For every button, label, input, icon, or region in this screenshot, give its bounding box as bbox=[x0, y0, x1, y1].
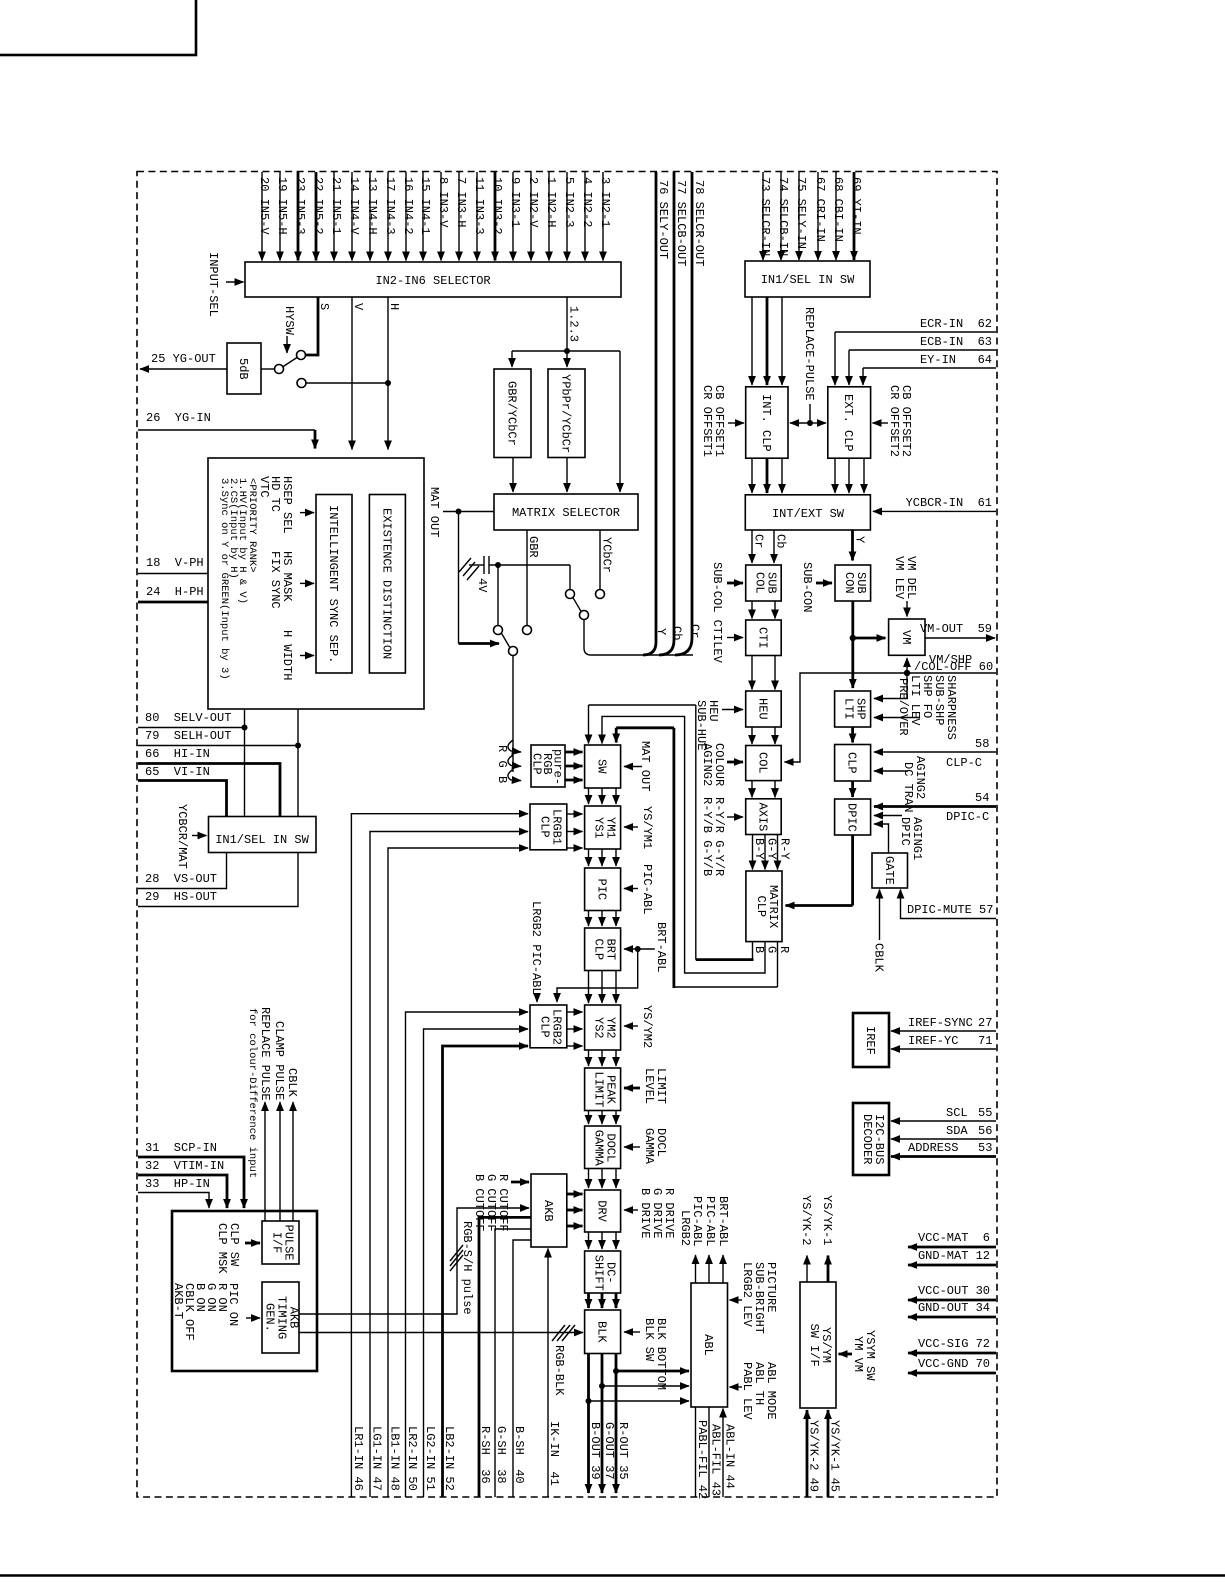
svg-text:ABL-FIL 43: ABL-FIL 43 bbox=[709, 1424, 723, 1496]
svg-text:10 IN3-2: 10 IN3-2 bbox=[490, 177, 504, 235]
svg-text:AGING2: AGING2 bbox=[700, 743, 714, 786]
node on H wire bbox=[385, 380, 391, 386]
svg-text:9 IN3-1: 9 IN3-1 bbox=[508, 177, 522, 227]
wire 1.2.3 from selector bbox=[512, 297, 620, 492]
pin 21 IN5-1 bbox=[329, 172, 343, 261]
block INT. CLP bbox=[746, 387, 788, 458]
svg-text:G-SH 38: G-SH 38 bbox=[494, 1426, 508, 1484]
svg-text:B: B bbox=[495, 776, 509, 783]
label priority rank note bbox=[218, 478, 258, 680]
block EXISTENCE DISTINCTION bbox=[369, 495, 405, 674]
svg-text:VCC-OUT 30: VCC-OUT 30 bbox=[918, 1284, 990, 1298]
wire GBR out of matrix selector bbox=[526, 530, 540, 625]
block BLK bbox=[585, 1310, 621, 1354]
label CB/CR OFFSET2 bbox=[873, 385, 914, 457]
pin VM-OUT 59 bbox=[920, 622, 995, 638]
svg-text:VM: VM bbox=[899, 630, 913, 644]
block CTI bbox=[746, 620, 782, 656]
svg-text:YM VM: YM VM bbox=[851, 1336, 865, 1372]
pin VCC-MAT 6 bbox=[908, 1231, 996, 1247]
label AGING2 DC TRAN bbox=[874, 756, 927, 812]
wires IN1/SEL to INT.CLP bbox=[752, 297, 782, 385]
wire 4V to YCbCr contact bbox=[569, 565, 571, 589]
svg-text:GAMMA: GAMMA bbox=[642, 1128, 656, 1165]
pin EY-IN 64 bbox=[863, 353, 996, 385]
label YS/YM1 stub bbox=[624, 806, 654, 849]
svg-text:LR1-IN 46: LR1-IN 46 bbox=[351, 1426, 365, 1491]
label R/G/B CUTOFF bbox=[472, 1174, 529, 1232]
svg-text:R-Y/B G-Y/B: R-Y/B G-Y/B bbox=[700, 797, 714, 876]
svg-text:77 SELCB-OUT: 77 SELCB-OUT bbox=[674, 180, 688, 266]
svg-text:R-Y: R-Y bbox=[778, 838, 792, 860]
svg-text:RGB-S/H pulse: RGB-S/H pulse bbox=[460, 1221, 474, 1315]
svg-text:GATE: GATE bbox=[882, 856, 896, 885]
svg-text:20 IN5-V: 20 IN5-V bbox=[257, 177, 271, 235]
label R/G/B DRIVE bbox=[624, 1188, 676, 1238]
wire Cr out of INT/EXT SW bbox=[752, 530, 766, 563]
svg-text:25 YG-OUT: 25 YG-OUT bbox=[151, 352, 216, 366]
pin R-SH 36 bbox=[478, 1217, 531, 1497]
label CB/CR OFFSET1 bbox=[700, 385, 744, 457]
svg-text:VTC: VTC bbox=[257, 476, 271, 498]
svg-text:REPLACE-PULSE: REPLACE-PULSE bbox=[802, 307, 816, 401]
pin VCC-SIG 72 bbox=[908, 1337, 996, 1353]
label VM DEL VM LEV bbox=[892, 556, 918, 617]
svg-text:CLP: CLP bbox=[537, 1016, 551, 1038]
block AKB TIMING GEN. bbox=[262, 1282, 301, 1353]
svg-text:ABL: ABL bbox=[701, 1334, 715, 1356]
svg-text:PRE/OVER: PRE/OVER bbox=[896, 678, 910, 736]
net BRT-ABL bbox=[557, 922, 668, 1002]
svg-text:AKB-T: AKB-T bbox=[171, 1283, 185, 1319]
svg-text:2 IN2-V: 2 IN2-V bbox=[526, 177, 540, 228]
svg-text:YCBCR/MAT: YCBCR/MAT bbox=[175, 804, 189, 869]
pin 17 IN4-3 bbox=[383, 172, 397, 261]
block CLP bbox=[835, 745, 871, 782]
svg-text:HYSW: HYSW bbox=[282, 306, 296, 336]
label COLOUR AGING2 bbox=[700, 743, 743, 786]
pin YCBCR-IN 61 bbox=[873, 496, 996, 511]
label PIC-ABL stub bbox=[624, 864, 654, 914]
wires SUB COL to CTI bbox=[752, 601, 775, 619]
pin 15 IN4-1 bbox=[418, 172, 432, 261]
svg-text:PABL LEV: PABL LEV bbox=[740, 1362, 754, 1420]
svg-text:Y: Y bbox=[654, 628, 668, 635]
svg-text:73 SELCR-IN: 73 SELCR-IN bbox=[758, 177, 772, 256]
svg-text:EXT. CLP: EXT. CLP bbox=[841, 394, 855, 452]
svg-text:23 IN5-3: 23 IN5-3 bbox=[293, 177, 307, 235]
wire SUB CON down with node bbox=[850, 601, 886, 688]
dashed diagram border bbox=[137, 172, 997, 1498]
svg-text:54: 54 bbox=[975, 791, 989, 805]
wire MAT OUT down to switch bbox=[459, 512, 500, 644]
wire lower contact to H bbox=[307, 382, 389, 384]
svg-text:B-OUT 39: B-OUT 39 bbox=[588, 1422, 602, 1480]
svg-text:CLP: CLP bbox=[537, 816, 551, 838]
pin 18 V-PH bbox=[138, 556, 208, 574]
svg-text:INT/EXT SW: INT/EXT SW bbox=[772, 507, 845, 521]
svg-text:DC TRAN: DC TRAN bbox=[901, 762, 915, 812]
svg-text:33 HP-IN: 33 HP-IN bbox=[145, 1177, 210, 1191]
block SW bbox=[585, 745, 621, 788]
svg-text:INT. CLP: INT. CLP bbox=[759, 394, 773, 452]
svg-text:MAT OUT: MAT OUT bbox=[638, 741, 652, 791]
svg-text:LRGB2: LRGB2 bbox=[678, 1210, 692, 1246]
svg-text:LB2-IN 52: LB2-IN 52 bbox=[442, 1426, 456, 1491]
svg-text:EXISTENCE DISTINCTION: EXISTENCE DISTINCTION bbox=[380, 508, 394, 659]
svg-text:V: V bbox=[351, 303, 365, 311]
pin ADDRESS 53 bbox=[891, 1141, 996, 1157]
svg-text:DPIC-MUTE 57: DPIC-MUTE 57 bbox=[907, 903, 993, 917]
svg-text:GND-OUT 34: GND-OUT 34 bbox=[918, 1301, 990, 1315]
svg-text:SDA: SDA bbox=[946, 1124, 968, 1138]
svg-text:HEU: HEU bbox=[755, 698, 769, 720]
block GBR/YCbCr bbox=[494, 369, 531, 458]
svg-text:YS/YM1: YS/YM1 bbox=[640, 806, 654, 849]
svg-text:3 IN2-1: 3 IN2-1 bbox=[598, 177, 612, 227]
wire bus Y (pin 76) bbox=[643, 172, 668, 655]
wires YM2 to PEAK bbox=[589, 1050, 617, 1066]
svg-text:16 IN4-2: 16 IN4-2 bbox=[401, 177, 415, 235]
svg-text:GBR: GBR bbox=[526, 536, 540, 558]
svg-text:SHIFT: SHIFT bbox=[592, 1255, 606, 1291]
svg-text:DECODER: DECODER bbox=[860, 1114, 874, 1164]
svg-text:INTELLINGENT SYNC SEP.: INTELLINGENT SYNC SEP. bbox=[326, 505, 340, 663]
pin B-SH 40 bbox=[512, 1240, 531, 1497]
pin R-OUT 35 bbox=[613, 1354, 689, 1494]
pin 33 HP-IN bbox=[138, 1177, 210, 1208]
wire RGB-BLK to BLK bbox=[299, 1325, 583, 1396]
pin SCL 55 bbox=[891, 1106, 996, 1121]
label H WIDTH bbox=[280, 630, 314, 680]
wire feeder LR2-IN bbox=[406, 1012, 529, 1497]
block MATRIX CLP bbox=[746, 871, 782, 942]
svg-text:GAMMA: GAMMA bbox=[592, 1130, 606, 1167]
wires ABL up outputs bbox=[678, 1196, 730, 1283]
block 5dB bbox=[227, 343, 261, 394]
svg-text:EY-IN 64: EY-IN 64 bbox=[920, 353, 992, 367]
wires LRGB1 to YM1 bbox=[567, 814, 583, 848]
svg-text:PIC: PIC bbox=[595, 879, 609, 901]
svg-text:11 IN3-3: 11 IN3-3 bbox=[472, 177, 486, 235]
pin 31 SCP-IN bbox=[138, 1141, 244, 1208]
svg-text:DPIC: DPIC bbox=[898, 817, 912, 846]
wire selected RGB down to pure-RGB CLP bbox=[495, 656, 521, 784]
label SUB-COL CTILEV bbox=[710, 562, 743, 664]
label HSEP SEL / HD TC / VTC bbox=[257, 476, 314, 534]
pin G-SH 38 bbox=[494, 1229, 531, 1497]
pin 22 IN5-2 bbox=[311, 172, 325, 261]
block pulse container bbox=[172, 1211, 317, 1371]
label MAT OUT bbox=[427, 487, 494, 537]
svg-text:LR2-IN 50: LR2-IN 50 bbox=[405, 1426, 419, 1491]
label ABL MODE ABL TH PABL LEV bbox=[730, 1362, 779, 1420]
svg-text:VCC-SIG 72: VCC-SIG 72 bbox=[918, 1337, 990, 1351]
block INT/EXT SW bbox=[745, 495, 870, 530]
svg-text:29 HS-OUT: 29 HS-OUT bbox=[145, 890, 217, 904]
pin 3 IN2-1 bbox=[598, 172, 612, 261]
svg-text:LEVEL: LEVEL bbox=[642, 1068, 656, 1104]
wires PIC to BRT bbox=[589, 911, 617, 927]
wire feeder LG2-IN bbox=[424, 1029, 529, 1497]
wire B output hook to SW bbox=[589, 705, 767, 960]
block YM2 YS2 bbox=[585, 1005, 621, 1050]
svg-text:YPbPr/YCbCr: YPbPr/YCbCr bbox=[559, 374, 573, 453]
block IN2-IN6 SELECTOR bbox=[245, 262, 621, 297]
svg-text:SUB-CON: SUB-CON bbox=[800, 562, 814, 612]
svg-text:Cb: Cb bbox=[774, 534, 788, 548]
label HEU SUB-HUE bbox=[694, 700, 743, 750]
svg-text:RGB-BLK: RGB-BLK bbox=[552, 1345, 566, 1396]
pin VCC-GND 70 bbox=[908, 1357, 996, 1373]
wires GAMMA to DRV bbox=[589, 1169, 617, 1189]
svg-text:LG2-IN 51: LG2-IN 51 bbox=[423, 1426, 437, 1491]
svg-text:14 IN4-V: 14 IN4-V bbox=[347, 177, 361, 235]
svg-text:YS2: YS2 bbox=[592, 1017, 606, 1039]
block PIC bbox=[585, 868, 621, 911]
wire V from selector bbox=[351, 297, 365, 450]
svg-text:5 IN2-3: 5 IN2-3 bbox=[562, 177, 576, 227]
pin 29 HS-OUT bbox=[138, 853, 298, 907]
svg-text:G-OUT 37: G-OUT 37 bbox=[602, 1422, 616, 1480]
svg-text:VCC-MAT 6: VCC-MAT 6 bbox=[918, 1231, 990, 1245]
svg-text:PABL-FIL 42: PABL-FIL 42 bbox=[695, 1420, 709, 1499]
pin 80 SELV-OUT bbox=[138, 711, 248, 731]
wire Y out of INT/EXT SW bbox=[853, 530, 867, 561]
svg-text:LG1-IN 47: LG1-IN 47 bbox=[370, 1426, 384, 1491]
pin 16 IN4-2 bbox=[401, 172, 415, 261]
svg-text:LTI: LTI bbox=[842, 698, 856, 720]
svg-text:SUB-COL CTILEV: SUB-COL CTILEV bbox=[710, 562, 724, 664]
block AXIS bbox=[746, 799, 782, 835]
pin ECR-IN 62 bbox=[835, 317, 996, 385]
svg-text:67 CRI-IN: 67 CRI-IN bbox=[813, 177, 827, 242]
pin IREF-SYNC 27 bbox=[891, 1016, 996, 1031]
pin 10 IN3-2 bbox=[490, 172, 504, 261]
svg-text:COL: COL bbox=[753, 572, 767, 594]
svg-text:YS1: YS1 bbox=[592, 817, 606, 839]
wire CLP to DPIC bbox=[851, 781, 854, 797]
wires YS/YK outputs up bbox=[799, 1195, 834, 1282]
svg-text:66 HI-IN: 66 HI-IN bbox=[145, 747, 210, 761]
svg-text:4V: 4V bbox=[475, 578, 489, 593]
pin 7 IN3-H bbox=[454, 172, 468, 261]
block DOCL GAMMA bbox=[585, 1126, 621, 1169]
pin 69 YI-IN bbox=[849, 172, 863, 260]
wires YM1 to PIC bbox=[589, 849, 617, 866]
svg-text:BLK SW: BLK SW bbox=[642, 1318, 656, 1362]
wire container to sel-in-sw bbox=[244, 709, 246, 817]
svg-text:G-Y: G-Y bbox=[765, 838, 779, 860]
wire S from selector bbox=[306, 297, 331, 355]
wires PEAK to GAMMA bbox=[589, 1111, 617, 1125]
wire GBR box to matrix selector bbox=[512, 458, 514, 493]
wires BRT to YM2 bbox=[589, 971, 617, 1004]
block GATE bbox=[872, 853, 908, 888]
svg-text:71: 71 bbox=[978, 1034, 992, 1048]
label CLP SW CLP MSK bbox=[215, 1223, 260, 1274]
wire bus Cr (pin 78) bbox=[675, 172, 702, 655]
block IN1/SEL IN SW (sync) bbox=[209, 817, 317, 853]
wire feeder LB2-IN bbox=[443, 1046, 529, 1497]
wire COL-OFF to SHP/LTI right bbox=[874, 673, 907, 699]
block SHP LTI bbox=[835, 691, 871, 727]
svg-text:5dB: 5dB bbox=[236, 358, 250, 380]
pin 14 IN4-V bbox=[347, 172, 361, 261]
wires HEU to COL bbox=[752, 727, 775, 744]
svg-text:58: 58 bbox=[975, 737, 989, 751]
block DPIC bbox=[835, 799, 871, 835]
block PULSE I/F bbox=[262, 1221, 299, 1264]
svg-text:Cb: Cb bbox=[670, 626, 684, 640]
svg-text:76 SELY-OUT: 76 SELY-OUT bbox=[656, 180, 670, 259]
label REPLACE-PULSE bbox=[790, 307, 826, 426]
svg-text:1 IN2-H: 1 IN2-H bbox=[544, 177, 558, 227]
svg-text:21 IN5-1: 21 IN5-1 bbox=[329, 177, 343, 235]
svg-text:CLP MSK: CLP MSK bbox=[215, 1223, 229, 1274]
pin 13 IN4-H bbox=[365, 172, 379, 261]
block HEU bbox=[746, 691, 782, 727]
svg-text:22 IN5-2: 22 IN5-2 bbox=[311, 177, 325, 235]
wire Cb out of INT/EXT SW bbox=[774, 530, 788, 563]
block COL bbox=[746, 746, 782, 781]
svg-text:LB1-IN 48: LB1-IN 48 bbox=[388, 1426, 402, 1491]
svg-text:DPIC-C: DPIC-C bbox=[946, 810, 989, 824]
block PEAK LIMIT bbox=[585, 1068, 621, 1111]
pin 1 IN2-H bbox=[544, 172, 558, 261]
svg-text:B-Y: B-Y bbox=[752, 838, 766, 860]
label DOCL GAMMA stub bbox=[624, 1128, 668, 1165]
wires AKB to DRV bbox=[567, 1194, 583, 1226]
pin 73 SELCR-IN bbox=[758, 172, 772, 260]
wire DPIC to MATRIX CLP bbox=[786, 835, 853, 906]
pin 5 IN2-3 bbox=[562, 172, 576, 261]
pin 2 IN2-V bbox=[526, 172, 540, 261]
wire R output hook to SW bbox=[616, 728, 791, 988]
pin YS/YK-1 45 bbox=[828, 1410, 842, 1497]
svg-text:YS/YK-2: YS/YK-2 bbox=[799, 1195, 813, 1245]
svg-text:GEN.: GEN. bbox=[263, 1303, 277, 1332]
svg-text:MAT OUT: MAT OUT bbox=[427, 487, 441, 537]
label SHARPNESS SUB-SHP SHP FO LTI LEV PRE/OVER bbox=[874, 675, 958, 740]
wire container to sel-in-sw 2 bbox=[297, 709, 299, 817]
svg-text:27: 27 bbox=[978, 1016, 992, 1030]
pin CLP-C 58 bbox=[874, 737, 996, 770]
block YS/YM SW I/F bbox=[800, 1282, 836, 1408]
pin 24 H-PH bbox=[138, 585, 208, 602]
svg-text:3.Sync on Y or GREEN(Input by: 3.Sync on Y or GREEN(Input by 3) bbox=[218, 478, 230, 680]
svg-text:80 SELV-OUT: 80 SELV-OUT bbox=[145, 711, 231, 725]
pin VM/SHP /COL-OFF 60 bbox=[904, 653, 996, 676]
svg-text:65 VI-IN: 65 VI-IN bbox=[145, 765, 210, 779]
label BLK BOTTOM BLK SW bbox=[624, 1318, 668, 1390]
svg-text:B: B bbox=[752, 946, 766, 953]
svg-text:53: 53 bbox=[978, 1141, 992, 1155]
pin 74 SELCB-IN bbox=[776, 172, 790, 260]
wire 5dB to switch pole bbox=[261, 368, 275, 370]
svg-text:8 IN3-V: 8 IN3-V bbox=[436, 177, 450, 228]
pin G-OUT 37 bbox=[599, 1354, 689, 1494]
wire COL-OFF to COL right bbox=[785, 673, 908, 762]
pin 67 CRI-IN bbox=[813, 172, 827, 260]
switch YCbCr bbox=[566, 590, 605, 620]
svg-text:H: H bbox=[387, 303, 401, 310]
svg-text:CLP: CLP bbox=[530, 753, 544, 775]
svg-text:74 SELCB-IN: 74 SELCB-IN bbox=[776, 177, 790, 256]
block EXT. CLP bbox=[828, 387, 871, 458]
wires LRGB2 to YM2 bbox=[567, 1012, 583, 1046]
label R-Y/R G-Y/R R-Y/B G-Y/B bbox=[700, 797, 743, 876]
svg-text:B DRIVE: B DRIVE bbox=[638, 1188, 652, 1238]
wires DC-SHIFT to BLK bbox=[589, 1293, 617, 1308]
svg-text:COL: COL bbox=[755, 752, 769, 774]
pin GND-MAT 12 bbox=[908, 1249, 996, 1265]
svg-text:VM LEV: VM LEV bbox=[892, 556, 906, 600]
svg-text:LRGB2 LEV: LRGB2 LEV bbox=[740, 1262, 754, 1328]
label MAT OUT stub bbox=[624, 741, 652, 791]
svg-text:CR OFFSET1: CR OFFSET1 bbox=[700, 385, 714, 457]
svg-text:REPLACE PULSE: REPLACE PULSE bbox=[258, 1007, 272, 1101]
block I2C-BUS DECODER bbox=[853, 1103, 889, 1175]
wires SW to YM1 bbox=[589, 788, 617, 804]
svg-text:DPIC: DPIC bbox=[845, 803, 859, 832]
wires CTI to HEU bbox=[752, 656, 775, 690]
svg-text:CBLK: CBLK bbox=[872, 943, 886, 973]
wire YPbPr box to matrix selector bbox=[566, 458, 568, 493]
wire feeder LB1-IN bbox=[388, 848, 528, 1497]
ground 4V clamp bbox=[459, 556, 570, 593]
svg-text:S: S bbox=[317, 303, 331, 310]
label YCBCR/MAT bbox=[175, 804, 207, 869]
svg-text:IN2-IN6 SELECTOR: IN2-IN6 SELECTOR bbox=[375, 274, 490, 288]
wire YCbCr out of matrix selector bbox=[600, 530, 614, 589]
wire CBLK to GATE bbox=[872, 890, 886, 973]
svg-text:R-OUT 35: R-OUT 35 bbox=[616, 1422, 630, 1480]
svg-text:CLP-C: CLP-C bbox=[946, 756, 982, 770]
svg-text:INPUT-SEL: INPUT-SEL bbox=[206, 252, 220, 317]
block IN1/SEL IN SW bbox=[745, 261, 870, 297]
wires EXT.CLP to INT/EXT SW bbox=[835, 458, 864, 493]
svg-text:ECR-IN 62: ECR-IN 62 bbox=[920, 317, 992, 331]
svg-text:CLP: CLP bbox=[592, 939, 606, 961]
label SUB-CON bbox=[800, 562, 832, 612]
wire H from selector bbox=[387, 297, 401, 450]
svg-text:R: R bbox=[777, 946, 791, 953]
svg-text:CLP: CLP bbox=[754, 896, 768, 918]
wires pulse outputs up bbox=[265, 1102, 293, 1221]
block DRV bbox=[585, 1190, 621, 1232]
block LRGB1 CLP bbox=[530, 804, 567, 850]
pin 75 SELY-IN bbox=[794, 172, 808, 260]
pin 32 VTIM-IN bbox=[138, 1159, 227, 1208]
wire SHP/LTI to CLP bbox=[851, 727, 854, 743]
svg-text:19 IN5-H: 19 IN5-H bbox=[275, 177, 289, 235]
wires pure-RGB CLP to SW bbox=[565, 752, 583, 780]
pin 9 IN3-1 bbox=[508, 172, 522, 261]
svg-text:4 IN2-2: 4 IN2-2 bbox=[580, 177, 594, 227]
bottom page rule bbox=[0, 1574, 1225, 1576]
svg-text:G: G bbox=[495, 761, 509, 768]
label LRGB2 PIC-ABL bbox=[529, 901, 543, 1002]
pin DPIC-C 54 bbox=[874, 791, 996, 824]
svg-text:for colour-Difference input: for colour-Difference input bbox=[246, 1008, 258, 1178]
svg-text:YS/YK-1: YS/YK-1 bbox=[820, 1195, 834, 1245]
svg-text:AKB: AKB bbox=[541, 1200, 555, 1222]
svg-text:BRT-ABL: BRT-ABL bbox=[716, 1196, 730, 1246]
svg-text:56: 56 bbox=[978, 1124, 992, 1138]
pin 25 YG-OUT bbox=[140, 352, 227, 369]
svg-text:MATRIX SELECTOR: MATRIX SELECTOR bbox=[512, 506, 620, 520]
